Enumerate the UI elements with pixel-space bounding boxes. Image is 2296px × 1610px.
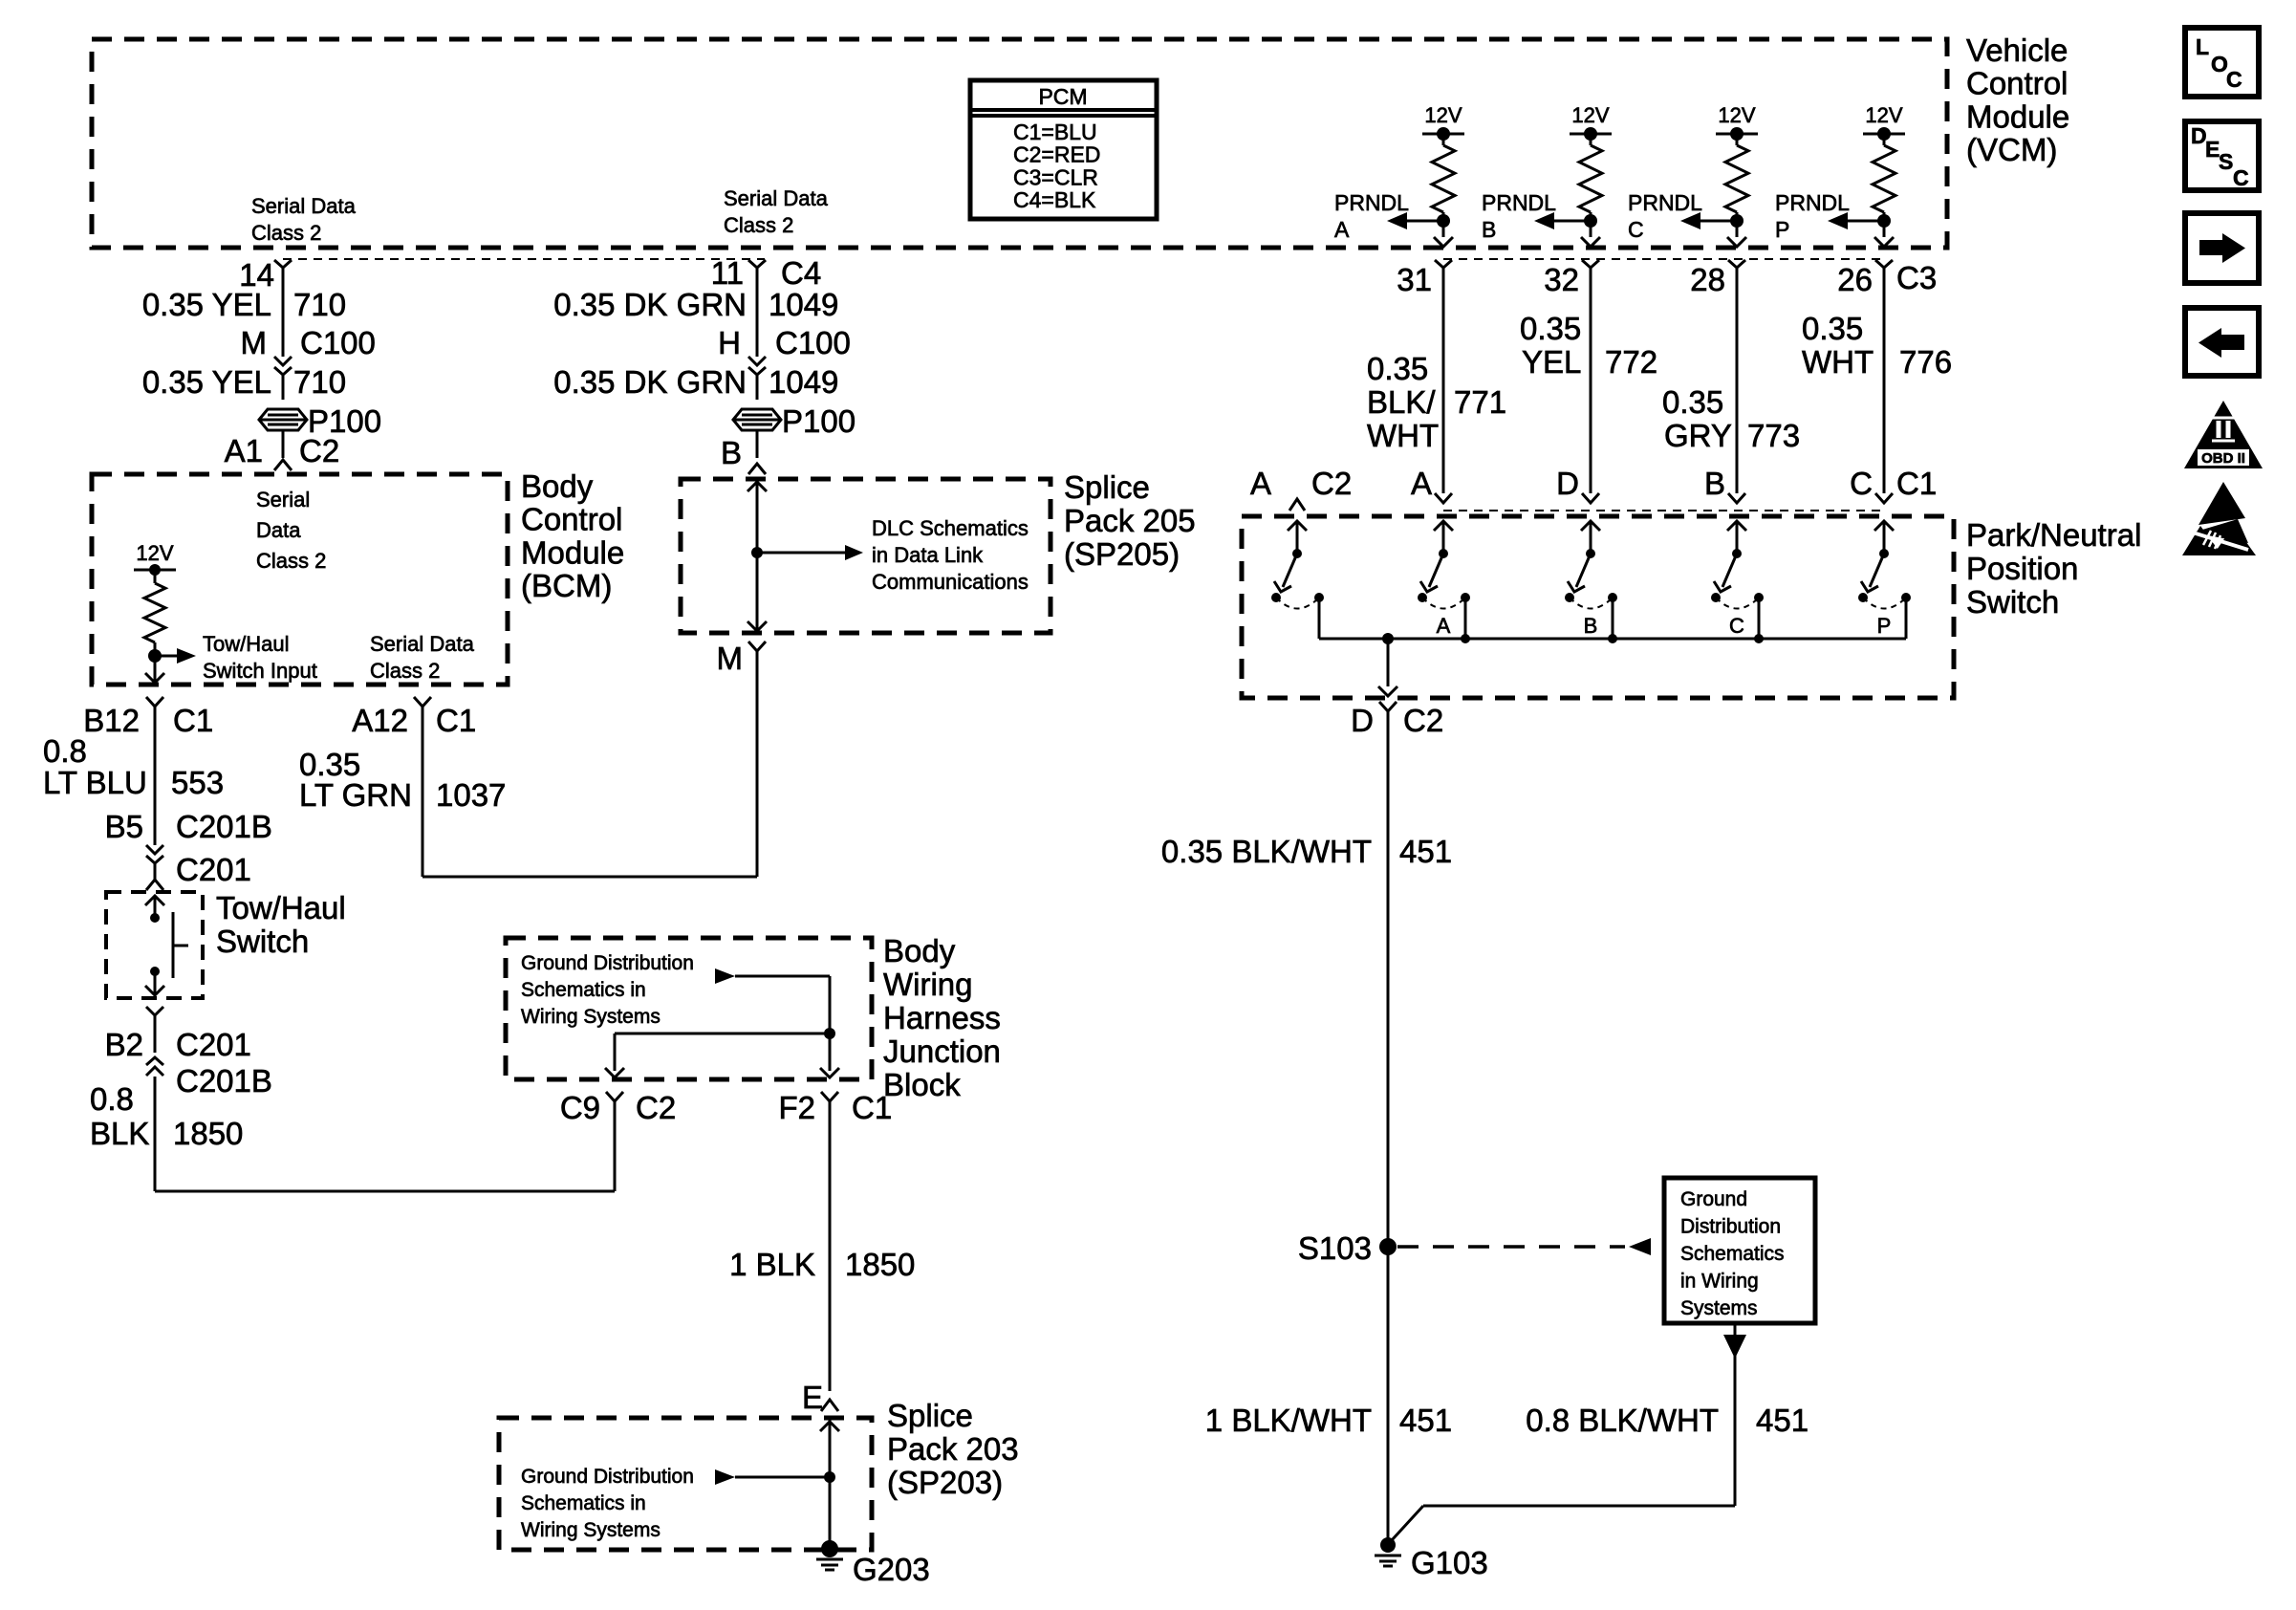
pin C9/C2 of junction block [560, 1090, 676, 1125]
svg-text:Tow/Haul: Tow/Haul [203, 632, 289, 656]
label: Splice Pack 203 (SP203) [887, 1398, 1019, 1500]
svg-text:S103: S103 [1298, 1230, 1372, 1266]
connector table PCM (C1=BLU C2=RED C3=CLR C4=BLK) [970, 80, 1157, 219]
svg-text:Serial Data: Serial Data [724, 186, 829, 210]
svg-text:12V: 12V [136, 541, 173, 565]
connector line C4 (VCM pins 14/11) [283, 258, 765, 260]
svg-text:C2: C2 [1403, 703, 1443, 738]
svg-text:771: 771 [1454, 384, 1506, 420]
grommet P100 (middle) [733, 403, 856, 439]
svg-text:0.35: 0.35 [1367, 351, 1428, 386]
wire: PNP output to pin D [1378, 633, 1397, 696]
svg-text:B2: B2 [105, 1027, 143, 1062]
svg-text:12V: 12V [1571, 103, 1609, 127]
svg-text:1850: 1850 [173, 1116, 243, 1151]
wire: BCM B12/C1 tow/haul switch signal 0.8 LT BLU 553 [43, 697, 272, 845]
svg-text:A: A [1437, 614, 1451, 638]
svg-text:Serial: Serial [256, 488, 310, 511]
svg-text:(BCM): (BCM) [521, 568, 612, 603]
svg-text:B12: B12 [83, 703, 140, 738]
svg-text:Class 2: Class 2 [724, 213, 793, 237]
svg-text:LT GRN: LT GRN [299, 777, 412, 813]
svg-text:C2: C2 [1311, 466, 1352, 501]
module box: Body Wiring Harness Junction Block (dashed) [506, 938, 872, 1079]
wire + pin A1/C2 into BCM [225, 430, 340, 470]
wire: VCM pin 31 to PNP switch (PRNDL A) [1397, 260, 1452, 503]
svg-text:Switch Input: Switch Input [203, 659, 317, 683]
wire: 0.35 BLK/WHT 451 from PNP D/C2 [1161, 702, 1452, 1545]
svg-text:Class 2: Class 2 [370, 659, 440, 683]
svg-text:710: 710 [293, 364, 346, 400]
wire: VCM pin 32 to PNP switch (PRNDL B) [1544, 260, 1599, 503]
svg-text:Wiring Systems: Wiring Systems [521, 1006, 661, 1028]
switch: PNP position contact C [1711, 521, 1764, 643]
wire: 0.8 BLK/WHT 451 from ground distribution [1392, 1325, 1809, 1540]
icon: DESC box [2185, 121, 2259, 190]
svg-text:Ground Distribution: Ground Distribution [521, 952, 694, 974]
label: 0.35 BLK/WHT 771 [1367, 351, 1506, 453]
svg-text:Class 2: Class 2 [251, 221, 321, 245]
svg-text:P: P [1775, 217, 1789, 242]
svg-text:P100: P100 [782, 403, 856, 439]
svg-text:C1: C1 [436, 703, 476, 738]
svg-text:C2=RED: C2=RED [1013, 142, 1100, 167]
label: Tow/Haul Switch [216, 890, 346, 959]
svg-text:451: 451 [1399, 1403, 1452, 1438]
label: Body Wiring Harness Junction Block [883, 933, 1001, 1102]
svg-text:0.8: 0.8 [43, 733, 87, 769]
svg-text:BLK: BLK [90, 1116, 149, 1151]
svg-text:Splice: Splice [887, 1398, 973, 1433]
wire: 0.8 BLK 1850 to junction block C9 [90, 1077, 615, 1191]
svg-text:12V: 12V [1865, 103, 1902, 127]
resistor: PRNDL A pull-up to 12V inside VCM [1334, 103, 1464, 247]
pin label D (connector C1) [1556, 466, 1579, 501]
ground G103 [1375, 1537, 1488, 1580]
svg-text:B: B [1584, 614, 1598, 638]
svg-text:Ground: Ground [1680, 1188, 1747, 1210]
switch: PNP position contact P [1858, 521, 1911, 639]
wire: VCM pin 28 to PNP switch (PRNDL C) [1690, 260, 1745, 503]
svg-text:F2: F2 [778, 1090, 815, 1125]
svg-text:M: M [717, 641, 744, 676]
resistor: PRNDL B pull-up to 12V inside VCM [1482, 103, 1612, 247]
svg-text:0.35: 0.35 [1520, 311, 1581, 346]
resistor: PRNDL P pull-up to 12V inside VCM [1775, 103, 1905, 247]
svg-text:DLC Schematics: DLC Schematics [872, 516, 1029, 540]
wire: BCM A12/C1 serial data 0.35 LT GRN 1037 to SP205 M [299, 697, 757, 877]
svg-text:Junction: Junction [883, 1033, 1001, 1069]
label: Serial Data Class 2 (inside BCM top) [256, 488, 326, 573]
svg-text:A: A [1334, 217, 1350, 242]
icon: ESD-sensitive triangle [2182, 482, 2256, 555]
svg-text:772: 772 [1605, 344, 1657, 380]
wire: PNP common bus [1319, 638, 1906, 641]
svg-text:12V: 12V [1718, 103, 1755, 127]
svg-text:Control: Control [1966, 66, 2068, 101]
svg-text:C1: C1 [852, 1090, 892, 1125]
svg-text:Class 2: Class 2 [256, 549, 326, 573]
wire: 1 BLK 1850 from F2/C1 to splice pack E [729, 1090, 915, 1415]
svg-text:Park/Neutral: Park/Neutral [1966, 517, 2141, 553]
connector C100 inline (middle) [748, 357, 766, 375]
svg-text:L: L [2196, 34, 2209, 59]
svg-text:0.35 BLK/WHT: 0.35 BLK/WHT [1161, 834, 1372, 869]
svg-text:C1=BLU: C1=BLU [1013, 120, 1097, 144]
svg-text:C201B: C201B [176, 809, 272, 844]
connector line C3 (VCM pins 31/32/28/26) [1443, 259, 1937, 295]
icon: LOC box [2185, 28, 2259, 97]
svg-text:C: C [2233, 165, 2249, 190]
wire: VCM pin 14 serial data, 0.35 YEL 710 (upper) [142, 257, 376, 360]
svg-text:0.35 DK GRN: 0.35 DK GRN [553, 364, 747, 400]
svg-text:26: 26 [1837, 262, 1873, 297]
svg-text:(VCM): (VCM) [1966, 132, 2057, 167]
label: Tow/Haul Switch Input [203, 632, 317, 683]
wire: 0.35 YEL 710 (lower) [142, 364, 346, 400]
svg-text:Pack 205: Pack 205 [1064, 503, 1196, 538]
module box: Body Control Module (BCM), dashed outline [92, 474, 508, 685]
wire + pin into Tow/Haul Switch [146, 863, 163, 890]
svg-text:Splice: Splice [1064, 469, 1150, 505]
wire + pin M below SP205 [717, 641, 767, 877]
svg-text:Serial Data: Serial Data [251, 194, 357, 218]
svg-text:Schematics in: Schematics in [521, 979, 646, 1001]
svg-text:Distribution: Distribution [1680, 1216, 1781, 1238]
svg-text:12V: 12V [1424, 103, 1462, 127]
svg-text:OBD II: OBD II [2201, 450, 2245, 467]
label: 0.35 YEL 772 [1520, 311, 1657, 380]
module box: Vehicle Control Module (VCM), dashed outline [92, 39, 1947, 248]
svg-text:Control: Control [521, 502, 622, 537]
label: 1 BLK/WHT 451 [1205, 1403, 1452, 1438]
svg-text:B: B [1704, 466, 1725, 501]
label: Ground Distribution Schematics in Wiring Systems (junction block) [521, 952, 694, 1028]
wire + pin B into Splice Pack 205 [721, 430, 766, 474]
svg-text:D: D [1351, 703, 1374, 738]
svg-text:0.8: 0.8 [90, 1081, 134, 1117]
svg-text:C: C [1628, 217, 1644, 242]
wire: VCM pin 26 to PNP switch (PRNDL P) [1837, 260, 1893, 503]
svg-text:C201: C201 [176, 852, 251, 887]
resistor: PRNDL C pull-up to 12V inside VCM [1628, 103, 1758, 247]
svg-text:Module: Module [1966, 98, 2069, 134]
svg-text:E: E [802, 1380, 823, 1415]
svg-text:Wiring Systems: Wiring Systems [521, 1519, 661, 1541]
svg-text:C2: C2 [636, 1090, 676, 1125]
pin label A (connector C1) [1411, 466, 1432, 501]
splice SP205 internal node and reference arrow [747, 479, 863, 633]
svg-text:Schematics in: Schematics in [521, 1492, 646, 1514]
svg-text:1850: 1850 [845, 1247, 915, 1282]
svg-text:0.35 DK GRN: 0.35 DK GRN [553, 287, 747, 322]
grommet P100 (left) [259, 403, 381, 439]
svg-text:1049: 1049 [769, 287, 838, 322]
svg-text:1 BLK/WHT: 1 BLK/WHT [1205, 1403, 1372, 1438]
svg-text:1037: 1037 [436, 777, 506, 813]
svg-text:0.8 BLK/WHT: 0.8 BLK/WHT [1526, 1403, 1719, 1438]
module box: Splice Pack 205 (dashed) [681, 479, 1051, 633]
svg-text:31: 31 [1397, 262, 1432, 297]
svg-text:553: 553 [171, 765, 224, 800]
svg-text:776: 776 [1899, 344, 1952, 380]
svg-text:1 BLK: 1 BLK [729, 1247, 815, 1282]
svg-text:1049: 1049 [769, 364, 838, 400]
svg-text:S: S [2219, 149, 2233, 174]
pin label C (connector C1) [1850, 466, 1873, 501]
module box: Park/Neutral Position Switch (dashed) [1242, 516, 1954, 698]
svg-text:Module: Module [521, 534, 624, 570]
svg-text:28: 28 [1690, 262, 1725, 297]
label: Serial Data Class 2 (middle, pin 11) [724, 186, 829, 237]
svg-text:Pack 203: Pack 203 [887, 1431, 1019, 1467]
svg-text:Harness: Harness [883, 1000, 1001, 1035]
icon: right arrow box [2185, 213, 2259, 283]
label: Serial Data Class 2 (inside BCM right) [370, 632, 475, 683]
svg-text:PRNDL: PRNDL [1482, 190, 1556, 215]
switch: PNP position contact A(C2) [1271, 521, 1324, 639]
svg-text:Schematics: Schematics [1680, 1243, 1785, 1265]
svg-text:WHT: WHT [1367, 418, 1439, 453]
svg-text:Position: Position [1966, 551, 2078, 586]
pin label B (connector C1) [1704, 466, 1725, 501]
svg-text:Serial Data: Serial Data [370, 632, 475, 656]
switch: PNP position contact A [1418, 521, 1470, 643]
svg-text:A12: A12 [352, 703, 408, 738]
svg-text:Tow/Haul: Tow/Haul [216, 890, 346, 925]
switch: Tow/Haul Switch contacts [145, 896, 188, 995]
reference box: Ground Distribution Schematics in Wiring Systems (right) [1664, 1178, 1815, 1323]
svg-text:0.35: 0.35 [1662, 384, 1723, 420]
svg-text:(SP203): (SP203) [887, 1465, 1003, 1500]
pin label C1 [1896, 466, 1937, 501]
svg-text:A: A [1250, 466, 1271, 501]
label: 0.35 GRY 773 [1662, 384, 1800, 453]
svg-text:C1: C1 [173, 703, 213, 738]
component box: Tow/Haul Switch (dashed) [106, 892, 203, 998]
svg-text:Block: Block [883, 1067, 961, 1102]
svg-text:Ground Distribution: Ground Distribution [521, 1466, 694, 1488]
icon: OBD II triangle [2184, 401, 2263, 468]
svg-text:A1: A1 [225, 433, 263, 468]
svg-text:C3: C3 [1896, 260, 1937, 295]
svg-text:Wiring: Wiring [883, 967, 973, 1002]
svg-text:in Wiring: in Wiring [1680, 1271, 1759, 1293]
svg-text:C1: C1 [1896, 466, 1937, 501]
svg-text:Vehicle: Vehicle [1966, 33, 2068, 68]
svg-text:B: B [721, 435, 742, 470]
svg-text:H: H [718, 325, 741, 360]
icon: left arrow box [2185, 308, 2259, 376]
svg-text:PRNDL: PRNDL [1334, 190, 1409, 215]
wire: VCM pin 11 serial data, 0.35 DK GRN 1049 (upper) [553, 255, 851, 360]
svg-text:C100: C100 [300, 325, 376, 360]
resistor: BCM tow/haul 12V pull-up [134, 541, 196, 683]
svg-text:(SP205): (SP205) [1064, 536, 1180, 572]
splice SP203 internal node and reference arrow [715, 1418, 839, 1545]
ground G203 [816, 1540, 930, 1587]
svg-text:WHT: WHT [1802, 344, 1874, 380]
connector C201B inline [146, 1057, 272, 1099]
connector C100 inline (left) [274, 357, 292, 375]
svg-text:Body: Body [883, 933, 956, 968]
svg-text:C9: C9 [560, 1090, 600, 1125]
svg-text:PCM: PCM [1038, 84, 1087, 109]
label: Vehicle Control Module (VCM) [1966, 33, 2069, 167]
svg-text:P: P [1877, 614, 1892, 638]
label: 0.35 WHT 776 [1802, 311, 1952, 380]
svg-text:C201: C201 [176, 1027, 251, 1062]
wire: 0.35 DK GRN 1049 (lower) [553, 364, 838, 400]
label: Body Control Module (BCM) [521, 468, 624, 603]
svg-text:BLK/: BLK/ [1367, 384, 1436, 420]
svg-text:C2: C2 [299, 433, 339, 468]
svg-text:0.35 YEL: 0.35 YEL [142, 364, 271, 400]
svg-text:G203: G203 [853, 1552, 930, 1587]
svg-text:32: 32 [1544, 262, 1579, 297]
svg-text:GRY: GRY [1664, 418, 1732, 453]
svg-text:C4: C4 [781, 255, 821, 291]
svg-text:C: C [1850, 466, 1873, 501]
label: DLC Schematics in Data Link Communications [872, 516, 1029, 594]
connector C201 inline [146, 845, 251, 887]
svg-text:C: C [2226, 67, 2242, 92]
svg-text:C201B: C201B [176, 1063, 272, 1099]
svg-text:451: 451 [1399, 834, 1452, 869]
svg-text:11: 11 [711, 255, 744, 291]
svg-text:YEL: YEL [1522, 344, 1581, 380]
label: Splice Pack 205 (SP205) [1064, 469, 1196, 572]
svg-text:B5: B5 [105, 809, 143, 844]
wire: junction block internal ground bus [605, 968, 839, 1077]
splice S103 [1298, 1230, 1397, 1266]
label: Ground Distribution Schematics in Wiring Systems (SP203) [521, 1466, 694, 1541]
svg-text:C4=BLK: C4=BLK [1013, 187, 1096, 212]
svg-text:Switch: Switch [1966, 584, 2059, 620]
connector line C1 (PNP pins A/D/B/C) [1443, 510, 1885, 511]
svg-text:D: D [1556, 466, 1579, 501]
svg-text:710: 710 [293, 287, 346, 322]
svg-text:Body: Body [521, 468, 594, 504]
svg-text:in Data Link: in Data Link [872, 543, 984, 567]
svg-text:Data: Data [256, 518, 301, 542]
svg-text:PRNDL: PRNDL [1628, 190, 1702, 215]
reference arrow: S103 to ground distribution schematics [1397, 1238, 1651, 1255]
svg-text:LT BLU: LT BLU [43, 765, 147, 800]
svg-text:C3=CLR: C3=CLR [1013, 164, 1098, 189]
switch: PNP position contact B [1565, 521, 1617, 643]
svg-text:M: M [241, 325, 268, 360]
svg-text:0.35: 0.35 [1802, 311, 1863, 346]
label: Park/Neutral Position Switch [1966, 517, 2141, 620]
svg-text:451: 451 [1756, 1403, 1809, 1438]
svg-text:A: A [1411, 466, 1432, 501]
svg-text:G103: G103 [1411, 1545, 1488, 1580]
svg-text:0.35 YEL: 0.35 YEL [142, 287, 271, 322]
svg-text:773: 773 [1747, 418, 1800, 453]
module box: Splice Pack 203 (dashed) [499, 1418, 872, 1550]
wire + pin B2/C201 below Tow/Haul Switch [105, 1007, 251, 1062]
svg-text:Communications: Communications [872, 570, 1029, 594]
svg-text:Systems: Systems [1680, 1297, 1758, 1319]
label: Serial Data Class 2 (left, pin 14) [251, 194, 357, 245]
svg-text:C100: C100 [775, 325, 851, 360]
svg-text:C: C [1729, 614, 1744, 638]
svg-text:B: B [1482, 217, 1496, 242]
pin A of connector C2 (PNP switch) [1250, 466, 1352, 511]
svg-text:Switch: Switch [216, 924, 309, 959]
svg-text:PRNDL: PRNDL [1775, 190, 1850, 215]
